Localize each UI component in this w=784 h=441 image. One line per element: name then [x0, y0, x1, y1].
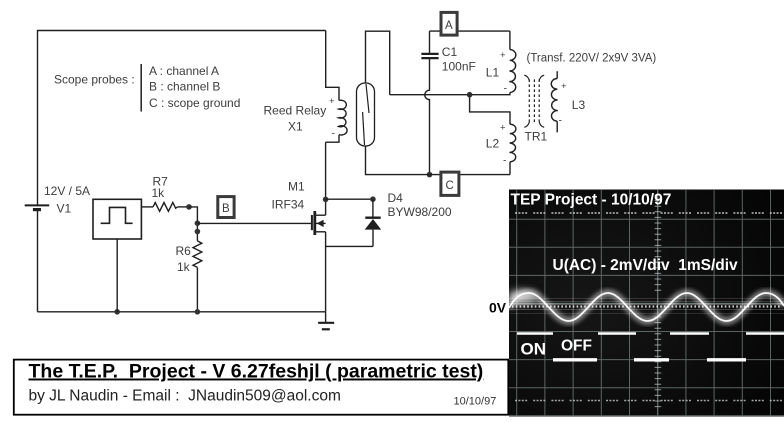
svg-text:L3: L3 — [572, 98, 586, 112]
wire C1 bottom with hop — [425, 59, 430, 175]
wire generator output — [141, 206, 153, 208]
inductor L1 — [470, 31, 516, 95]
svg-text:-: - — [332, 128, 336, 140]
svg-text:L2: L2 — [486, 137, 500, 151]
svg-text:BYW98/200: BYW98/200 — [388, 205, 452, 219]
wire generator bottom — [116, 239, 118, 312]
waveform trace — [509, 293, 784, 321]
node B — [218, 197, 234, 218]
transistor M1 mosfet — [312, 211, 326, 235]
junction dot C1 bottom — [427, 172, 433, 178]
svg-text:-: - — [503, 155, 507, 167]
wire battery negative down — [37, 211, 39, 312]
svg-text:-: - — [504, 83, 508, 95]
svg-text:M1: M1 — [288, 180, 305, 194]
svg-text:X1: X1 — [288, 120, 303, 134]
svg-text:-: - — [559, 115, 563, 127]
wire source vertical — [325, 232, 327, 312]
svg-text:B : channel B: B : channel B — [149, 80, 220, 94]
wire drain to diode — [326, 198, 373, 200]
waveform left bloom — [507, 290, 537, 304]
svg-text:A : channel A: A : channel A — [149, 64, 219, 78]
svg-text:V1: V1 — [57, 202, 72, 216]
waveform streak lines — [509, 299, 784, 314]
junction dot gate wire — [195, 220, 201, 226]
reed switch capsule X1 — [357, 83, 375, 146]
svg-text:ON: ON — [521, 340, 547, 359]
node C — [441, 172, 459, 195]
svg-text:100nF: 100nF — [442, 60, 476, 74]
svg-text:TR1: TR1 — [525, 130, 548, 144]
svg-text:C : scope ground: C : scope ground — [149, 96, 240, 110]
square trace ON segments — [517, 332, 784, 335]
wire gate horizontal — [197, 222, 311, 224]
wire bottom ground rail — [38, 311, 326, 313]
wire relay coil bottom — [326, 135, 339, 142]
ground — [318, 312, 334, 330]
junction dot generator on rail — [114, 309, 120, 315]
svg-text:12V / 5A: 12V / 5A — [44, 184, 90, 198]
svg-text:Reed Relay: Reed Relay — [264, 104, 327, 118]
svg-text:IRF34: IRF34 — [272, 198, 305, 212]
svg-text:+: + — [561, 81, 567, 92]
svg-text:Scope probes :: Scope probes : — [54, 73, 135, 87]
inductor L3 — [551, 71, 558, 132]
wire battery positive to top rail — [38, 31, 326, 206]
scope graticule — [509, 190, 784, 416]
graticule center ticks — [655, 195, 662, 407]
junction dot drain — [323, 197, 329, 203]
svg-text:0V: 0V — [489, 300, 507, 316]
svg-text:TEP Project - 10/10/97: TEP Project - 10/10/97 — [511, 192, 672, 209]
svg-text:A: A — [445, 20, 453, 32]
wire top rail to relay coil — [326, 31, 339, 101]
svg-text:B: B — [222, 203, 230, 215]
wire drain vertical — [325, 142, 327, 215]
svg-text:+: + — [500, 123, 506, 134]
svg-text:C1: C1 — [442, 45, 458, 59]
svg-text:R6: R6 — [176, 244, 192, 258]
wire bottom node C — [366, 146, 511, 175]
relay coil X1 — [338, 100, 347, 135]
svg-text:U(AC) - 2mV/div 1mS/div: U(AC) - 2mV/div 1mS/div — [553, 257, 739, 274]
scope dotted row bottom — [515, 400, 782, 402]
svg-text:+: + — [329, 96, 335, 107]
wire R6 bottom — [196, 267, 198, 311]
diode D4 — [365, 199, 382, 246]
wire R7 to node — [178, 206, 190, 208]
wire center tap to L2 — [470, 95, 510, 125]
svg-text:The T.E.P. Project - V 6.27fe: The T.E.P. Project - V 6.27feshjl ( para… — [29, 361, 484, 383]
wire reed to center tap — [390, 94, 470, 96]
junction dot center tap — [467, 92, 473, 98]
junction dot R6 top — [195, 229, 201, 235]
pulse generator G1 — [93, 199, 141, 239]
wire node A horizontal — [430, 30, 510, 32]
svg-text:1k: 1k — [177, 260, 191, 274]
wire node to gate line — [189, 207, 197, 241]
wire reed switch top to node A — [366, 31, 390, 94]
inductor L2 — [509, 124, 516, 174]
scope dotted row top — [515, 212, 782, 214]
resistor R6 — [193, 241, 202, 268]
waveform center ticks — [512, 305, 780, 307]
capacitor C1 — [421, 31, 438, 58]
oscilloscope photo — [507, 190, 784, 417]
svg-text:+: + — [500, 50, 506, 61]
svg-text:(Transf. 220V/ 2x9V 3VA): (Transf. 220V/ 2x9V 3VA) — [527, 53, 657, 65]
svg-text:D4: D4 — [388, 191, 404, 205]
svg-text:by JL Naudin - Email : JNaudi: by JL Naudin - Email : JNaudin509@aol.co… — [29, 388, 341, 405]
waveform glow — [509, 293, 784, 321]
wire source to diode bottom — [326, 245, 373, 247]
scope probes legend — [54, 64, 240, 112]
svg-text:1k: 1k — [152, 186, 166, 200]
junction dot diode top — [370, 196, 376, 202]
svg-text:C: C — [446, 180, 454, 192]
transformer core TR1 — [524, 75, 544, 127]
svg-text:10/10/97: 10/10/97 — [454, 396, 497, 408]
junction dot R7 output — [186, 204, 192, 210]
svg-text:OFF: OFF — [561, 338, 592, 355]
title box — [14, 360, 509, 415]
resistor R7 — [153, 203, 178, 212]
junction dot R6 on rail — [195, 309, 201, 315]
square trace OFF segments — [553, 358, 746, 361]
svg-text:L1: L1 — [486, 66, 500, 80]
battery V1 — [25, 205, 50, 209]
node A — [441, 12, 457, 35]
